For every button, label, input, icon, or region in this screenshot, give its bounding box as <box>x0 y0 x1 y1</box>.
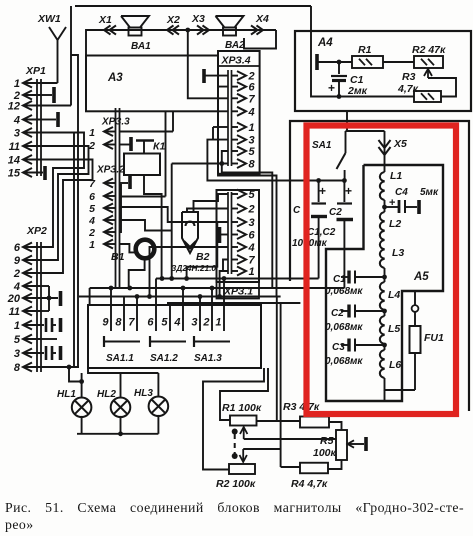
wire XP3.3 pin1 riser to A3 <box>172 111 174 131</box>
svg-text:11: 11 <box>9 306 20 318</box>
svg-text:А3: А3 <box>107 72 123 84</box>
XP3.1 pin 4 wire <box>150 247 229 297</box>
capacitor C3 0.068mk <box>341 344 348 346</box>
svg-text:4: 4 <box>88 215 95 227</box>
svg-text:1: 1 <box>14 320 20 332</box>
B2 terminal wires <box>187 209 228 213</box>
XP2 pin 1 capacitor <box>41 324 44 326</box>
XP3.4 pin 5 <box>232 150 239 152</box>
capacitor C1 (A4) 2mk electrolytic <box>338 62 340 74</box>
XP3.4 pin 1 wire <box>213 126 228 128</box>
svg-text:Х2: Х2 <box>166 14 180 26</box>
svg-text:С2: С2 <box>331 308 344 319</box>
XP3.3 pin 1 <box>104 127 113 136</box>
node bus junctions <box>160 276 165 281</box>
svg-text:8: 8 <box>115 317 122 329</box>
XP3.4 pin 6 <box>232 86 239 88</box>
wire X2 junction to XP3.4 pin7 <box>188 30 228 98</box>
svg-text:HL2: HL2 <box>97 389 116 400</box>
svg-text:7: 7 <box>249 255 256 267</box>
XP3.4 pin 2 terminator <box>205 75 228 77</box>
XP3.2 pin 5 <box>104 204 113 213</box>
svg-text:6: 6 <box>147 317 154 329</box>
svg-text:А4: А4 <box>317 37 333 49</box>
wire SA to R2 left rail <box>203 368 264 470</box>
SA1 pin 7 <box>136 305 138 331</box>
XP1 pin 11 wire to XP2 pin 9 <box>41 146 89 260</box>
svg-text:+: + <box>319 184 326 198</box>
connector XP3.1 body rails <box>227 192 229 274</box>
XP1 pin 11 <box>23 142 32 151</box>
XP3.2 pin 1 wire to B1 <box>120 244 135 252</box>
XP2 pin 20 terminator <box>41 297 58 299</box>
XP3.2 pin 6 <box>104 192 113 201</box>
XP2 pin 20 <box>23 294 32 303</box>
XP2 pin 1 <box>23 321 32 330</box>
block A3 <box>86 56 218 112</box>
XP3.4 pin 4 wire from A3 bottom edge <box>218 110 228 112</box>
svg-text:1: 1 <box>89 127 95 139</box>
svg-text:4: 4 <box>248 242 255 254</box>
R1 wiper <box>244 438 336 440</box>
svg-text:8: 8 <box>249 159 256 171</box>
XP2 pin 2 <box>23 269 32 278</box>
svg-text:+: + <box>345 184 352 198</box>
wire B1 to bus <box>129 261 145 289</box>
wire pin12 riser <box>70 6 72 106</box>
svg-text:R4 4,7к: R4 4,7к <box>291 478 328 490</box>
svg-text:В2: В2 <box>196 251 210 263</box>
svg-text:1: 1 <box>14 78 20 90</box>
XP3.4 pin 4 <box>232 110 239 112</box>
speaker BA1 <box>129 28 142 36</box>
wire riser from block top to bus <box>289 121 291 279</box>
battery B2 <box>182 212 198 253</box>
SA1 pin 3 <box>199 305 201 331</box>
XP1 pin 14 wire to XP2 pin 2 <box>41 160 93 274</box>
switch SA1.3 <box>193 336 195 347</box>
wire bus risers to resistor network <box>276 297 278 422</box>
XP3.2 pin 7 <box>104 179 113 188</box>
svg-text:5мк: 5мк <box>420 187 439 198</box>
svg-text:FU1: FU1 <box>424 332 444 344</box>
XP3.2 pin 7 terminator <box>120 182 129 184</box>
switch SA1.2 <box>149 336 151 347</box>
capacitor C1 0.068mk <box>341 276 348 278</box>
svg-text:Х1: Х1 <box>98 14 112 26</box>
connector XP3.1 label box <box>217 282 260 299</box>
svg-text:3: 3 <box>14 128 20 140</box>
inductor L4 <box>380 282 385 310</box>
svg-text:SA1.1: SA1.1 <box>106 353 134 364</box>
XP2 pin 9 <box>23 256 32 265</box>
XP3.2 pin 1 <box>104 240 113 249</box>
svg-text:С1: С1 <box>333 274 346 285</box>
XP1 pin 15 <box>23 168 32 177</box>
antenna XW1 <box>49 27 58 40</box>
XP3.3 pin 2 <box>104 140 113 149</box>
XP3.2 pin 4 <box>104 216 113 225</box>
wire R4 to R5 bottom <box>328 460 342 469</box>
svg-text:7: 7 <box>89 178 96 190</box>
svg-text:ВА2: ВА2 <box>225 40 245 51</box>
svg-text:3: 3 <box>249 217 255 229</box>
svg-text:R3: R3 <box>402 71 416 83</box>
XP3.4 pin 2 <box>232 75 239 77</box>
XP2 pins 4-20-11 bracket <box>41 285 49 287</box>
svg-text:15: 15 <box>8 168 21 180</box>
XP1 pin 14 <box>23 155 32 164</box>
svg-text:L1: L1 <box>390 170 402 182</box>
XP2 pin 8 <box>23 363 32 372</box>
svg-text:Х4: Х4 <box>255 13 269 25</box>
svg-text:5: 5 <box>14 334 21 346</box>
svg-text:5: 5 <box>89 203 95 215</box>
wire SA1 top link <box>346 130 385 132</box>
svg-text:1: 1 <box>89 239 95 251</box>
inductor L2 <box>380 212 385 240</box>
svg-text:3: 3 <box>14 348 20 360</box>
wire center riser a <box>171 164 173 279</box>
svg-text:7: 7 <box>128 317 135 329</box>
block A4 <box>295 31 471 111</box>
wire speaker rail <box>86 30 276 55</box>
XP2 pin 5 <box>23 335 32 344</box>
SA1 pin 2 <box>211 305 213 331</box>
wire below XP3.4 to bus riser <box>218 174 277 297</box>
bus wire row 4 <box>167 302 300 304</box>
XP2 pin 3 <box>23 349 32 358</box>
node A4 input junction <box>337 60 342 65</box>
node L1-L2 tap <box>382 205 387 210</box>
lamp HL1 <box>81 382 83 399</box>
svg-text:2: 2 <box>88 140 95 152</box>
highlight red rectangle <box>307 126 457 415</box>
svg-text:9: 9 <box>102 317 109 329</box>
R2 wiper <box>243 448 280 450</box>
svg-text:R2 47к: R2 47к <box>412 44 446 56</box>
XP1 pin 2 <box>23 91 32 100</box>
R1 right wire to R3 <box>257 420 301 422</box>
svg-text:20: 20 <box>7 293 21 305</box>
svg-text:2: 2 <box>13 268 20 280</box>
capacitor C2 0.068mk <box>341 310 348 312</box>
svg-text:6: 6 <box>14 242 21 254</box>
XP1 pin 15 terminator <box>41 172 43 174</box>
fuse FU1 <box>412 305 419 312</box>
wire BA2 return loop <box>244 30 276 49</box>
svg-text:ХРЗ.4: ХРЗ.4 <box>221 55 251 67</box>
caption <box>5 500 464 533</box>
wire lamp rail top <box>88 368 158 373</box>
svg-text:6: 6 <box>249 82 256 94</box>
SA1 pin 5 <box>169 305 171 331</box>
XP3.1 pin 4 <box>232 246 239 248</box>
svg-text:5: 5 <box>249 146 256 158</box>
XP1 pin 12 wire <box>41 105 71 107</box>
svg-text:ХР2: ХР2 <box>26 225 47 237</box>
svg-text:2мк: 2мк <box>347 85 368 97</box>
lamp HL3 <box>157 373 159 398</box>
XP2 pin 6 <box>23 243 32 252</box>
svg-text:R2 100к: R2 100к <box>216 478 256 490</box>
lamp HL2 <box>120 373 122 398</box>
XP3.4 pin 8 <box>232 163 239 165</box>
XP2 pin 4 <box>23 282 32 291</box>
svg-text:ХРЗ.2: ХРЗ.2 <box>96 165 125 176</box>
XP1 pin 3 wire to XP2 pin 6 <box>41 133 84 248</box>
wire R1-R2 <box>383 61 414 63</box>
svg-text:0,068мк: 0,068мк <box>325 286 363 297</box>
svg-text:R5: R5 <box>320 435 334 447</box>
svg-text:4: 4 <box>13 281 20 293</box>
XP3.4 pin 3 wire to SA1 feed <box>207 140 344 181</box>
XP3.2 pin 4 wire <box>120 220 172 231</box>
XP2 pin 3 capacitor <box>41 352 44 354</box>
svg-text:L3: L3 <box>392 247 404 259</box>
svg-text:11: 11 <box>9 141 20 153</box>
svg-text:С4: С4 <box>395 187 408 198</box>
svg-text:1: 1 <box>215 317 221 329</box>
svg-text:В1: В1 <box>111 251 125 263</box>
svg-text:XW1: XW1 <box>37 13 61 25</box>
wire lamp feed from XP2 pin8 <box>69 367 82 382</box>
SA1 pin 1 <box>223 305 225 331</box>
svg-text:С1,С2: С1,С2 <box>307 227 336 238</box>
svg-text:А5: А5 <box>413 271 429 283</box>
A4 internal left rail <box>311 6 414 97</box>
XP3.2 pin 6 wire <box>120 196 166 198</box>
svg-text:R1 100к: R1 100к <box>222 402 262 414</box>
svg-text:14: 14 <box>8 155 20 167</box>
svg-text:6: 6 <box>89 191 95 203</box>
svg-text:SA1.2: SA1.2 <box>150 353 178 364</box>
svg-text:К1: К1 <box>153 141 165 153</box>
SA1 pin 9 <box>110 305 112 331</box>
svg-text:SA1: SA1 <box>312 140 332 151</box>
svg-text:7: 7 <box>249 93 256 105</box>
XP3.4 pin 5 wire <box>222 151 272 288</box>
XP1 pin 4 <box>23 115 32 124</box>
svg-text:2: 2 <box>88 227 95 239</box>
XP3.1 pin 6 <box>232 234 239 236</box>
XP3.1 pin 7 <box>232 259 239 261</box>
svg-text:HL3: HL3 <box>134 388 153 399</box>
XP1 pin 3 <box>23 128 32 137</box>
XP3.4 pin 8 wire <box>172 163 228 165</box>
svg-text:С3: С3 <box>332 342 345 353</box>
wire top rail <box>75 5 311 7</box>
svg-text:5: 5 <box>249 189 256 201</box>
wire A3 bottom riser <box>165 111 167 196</box>
svg-text:1000мк: 1000мк <box>292 238 328 249</box>
connector XP3.1 box <box>217 190 260 282</box>
inductor L1 <box>380 172 385 200</box>
XP3.1 pin 7 wire <box>223 260 228 272</box>
wire bus risers down to SA1 pins <box>110 288 112 305</box>
XP3.2 pin 2 wire <box>120 184 122 232</box>
svg-text:12: 12 <box>8 101 20 113</box>
microphone B1 <box>136 240 155 259</box>
wire SA to R1 left <box>220 368 268 420</box>
wire R3 to R5 <box>329 422 342 430</box>
SA1 pin 8 <box>123 305 125 331</box>
svg-text:SA1.3: SA1.3 <box>194 353 222 364</box>
svg-text:С: С <box>293 205 301 216</box>
svg-text:1: 1 <box>249 122 255 134</box>
node L5-L6 tap <box>384 344 386 350</box>
svg-text:Х5: Х5 <box>393 138 407 150</box>
XP3.1 pin 5 <box>232 193 239 195</box>
XP3.2 pin 2 <box>104 228 113 237</box>
mechanical coupling dashes <box>232 429 238 435</box>
XP3.4 pin 6 wire <box>218 66 228 87</box>
svg-text:ХР1: ХР1 <box>25 65 46 77</box>
svg-text:R1: R1 <box>358 44 372 56</box>
svg-text:2: 2 <box>248 204 255 216</box>
block boundary outer right <box>290 121 469 411</box>
wire left branch riser <box>71 55 78 367</box>
XP3.1 pin 1 wire <box>220 271 228 297</box>
connector XP3.4 box <box>218 51 260 174</box>
svg-text:4: 4 <box>248 106 255 118</box>
SA1 pin 6 <box>155 305 157 331</box>
inductor L3 <box>380 240 385 268</box>
svg-text:3: 3 <box>249 135 255 147</box>
XP3.4 pin 7 <box>232 97 239 99</box>
svg-text:0,068мк: 0,068мк <box>325 356 363 367</box>
capacitor C1 1000mk electrolytic <box>316 178 321 183</box>
svg-text:6: 6 <box>249 230 256 242</box>
XP1 pin 1 wire to antenna <box>41 82 58 84</box>
svg-text:9: 9 <box>14 255 21 267</box>
XP2 pin 8 wire to lamps <box>41 366 79 368</box>
svg-text:ВА1: ВА1 <box>131 41 151 52</box>
svg-text:4,7к: 4,7к <box>397 83 419 95</box>
svg-text:0,068мк: 0,068мк <box>325 322 363 333</box>
capacitor C2 1000mk electrolytic <box>342 178 347 183</box>
resistor R2 100k potentiometer <box>229 464 255 474</box>
XP3.1 pin 2 <box>232 208 239 210</box>
XP1 pin 4 terminator <box>41 119 56 121</box>
XP1 pin 12 <box>23 101 32 110</box>
svg-text:8: 8 <box>14 362 21 374</box>
svg-text:1: 1 <box>249 266 255 278</box>
R5 wiper with terminator <box>349 443 364 445</box>
SA1 pin 4 <box>182 305 184 331</box>
svg-text:L5: L5 <box>388 323 400 335</box>
XP3.1 pin 6 terminator <box>221 234 228 236</box>
inductor L5 <box>380 316 385 344</box>
wire coil bottom <box>385 378 416 390</box>
svg-text:2: 2 <box>202 317 209 329</box>
wire XP3.1 pin3 branch to bus <box>187 222 218 279</box>
bus wire row 3 <box>79 296 281 298</box>
node L4-L5 tap <box>384 310 386 316</box>
svg-text:Х3: Х3 <box>191 13 205 25</box>
XP3.1 pin 3 <box>232 221 239 223</box>
svg-text:4: 4 <box>13 115 20 127</box>
A4 input terminator <box>315 54 319 70</box>
node speaker junction <box>185 28 190 33</box>
svg-text:4: 4 <box>173 317 180 329</box>
svg-text:С2: С2 <box>329 207 342 218</box>
XP1 pin 2 terminator <box>41 94 52 96</box>
wire left branch riser 2 <box>73 133 75 368</box>
svg-text:5: 5 <box>161 317 168 329</box>
wire A4 to SA1 <box>346 111 348 131</box>
svg-text:L4: L4 <box>388 289 400 301</box>
block A5 boundary <box>326 165 443 401</box>
XP2 pin 11 <box>23 307 32 316</box>
XP3.4 pin 1 <box>232 126 239 128</box>
svg-text:ЗД24Н.21.0: ЗД24Н.21.0 <box>171 263 216 273</box>
svg-text:L2: L2 <box>389 218 401 230</box>
speaker BA2 <box>223 28 236 36</box>
XP3.2 pin 5 wire to XP3.1 pin 3 <box>120 207 229 222</box>
svg-text:+: + <box>328 81 335 95</box>
node L3-L4 tap <box>384 268 386 282</box>
svg-text:3: 3 <box>191 317 197 329</box>
XP2 pin 5 wire <box>41 338 57 340</box>
svg-text:HL1: HL1 <box>57 389 76 400</box>
bus wire row 1 <box>156 278 319 280</box>
inductor L6 <box>380 350 385 378</box>
block SA1 switches <box>88 305 261 368</box>
svg-text:L6: L6 <box>389 359 401 371</box>
bus wire row 2 <box>90 287 345 289</box>
connector XP3.4 body rails <box>227 70 229 166</box>
XP3.1 pin 1 <box>232 270 239 272</box>
wire lamp bottom rail <box>81 416 83 434</box>
relay K1 stem <box>144 175 162 279</box>
svg-text:100к: 100к <box>313 447 337 459</box>
switch SA1.1 <box>103 336 105 347</box>
XP1 pin 1 <box>23 79 32 88</box>
XP3.4 pin 3 <box>232 139 239 141</box>
resistor R4 4.7k <box>300 463 328 474</box>
R2 wiper <box>428 78 456 97</box>
